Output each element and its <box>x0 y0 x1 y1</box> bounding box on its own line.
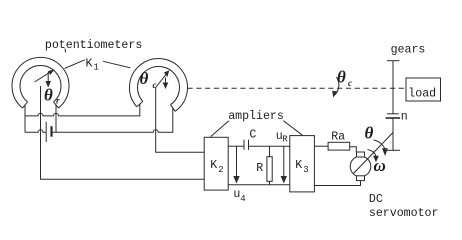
svg-text:potentiometers: potentiometers <box>45 39 142 52</box>
svg-text:4: 4 <box>240 194 245 204</box>
svg-text:R: R <box>282 135 288 145</box>
svg-text:θ: θ <box>337 68 346 87</box>
svg-text:ω: ω <box>374 156 386 175</box>
svg-text:Ra: Ra <box>331 131 345 144</box>
svg-text:K: K <box>86 58 93 71</box>
svg-text:1: 1 <box>94 63 99 73</box>
svg-text:c: c <box>153 80 157 90</box>
svg-text:gears: gears <box>391 44 426 57</box>
svg-text:r: r <box>56 96 60 106</box>
svg-text:θ: θ <box>140 69 149 88</box>
svg-text:3: 3 <box>303 165 308 175</box>
svg-text:ampliers: ampliers <box>228 110 284 123</box>
svg-text:R: R <box>256 162 263 175</box>
svg-text:θ: θ <box>44 86 53 105</box>
svg-text:load: load <box>408 88 436 101</box>
svg-text:2: 2 <box>218 165 223 175</box>
svg-text:n: n <box>401 111 408 124</box>
svg-text:servomotor: servomotor <box>369 207 439 220</box>
svg-text:K: K <box>295 159 302 172</box>
svg-text:C: C <box>249 128 256 141</box>
svg-text:DC: DC <box>369 193 383 206</box>
svg-text:c: c <box>348 78 352 88</box>
svg-text:θ: θ <box>365 124 374 143</box>
svg-text:K: K <box>210 159 217 172</box>
